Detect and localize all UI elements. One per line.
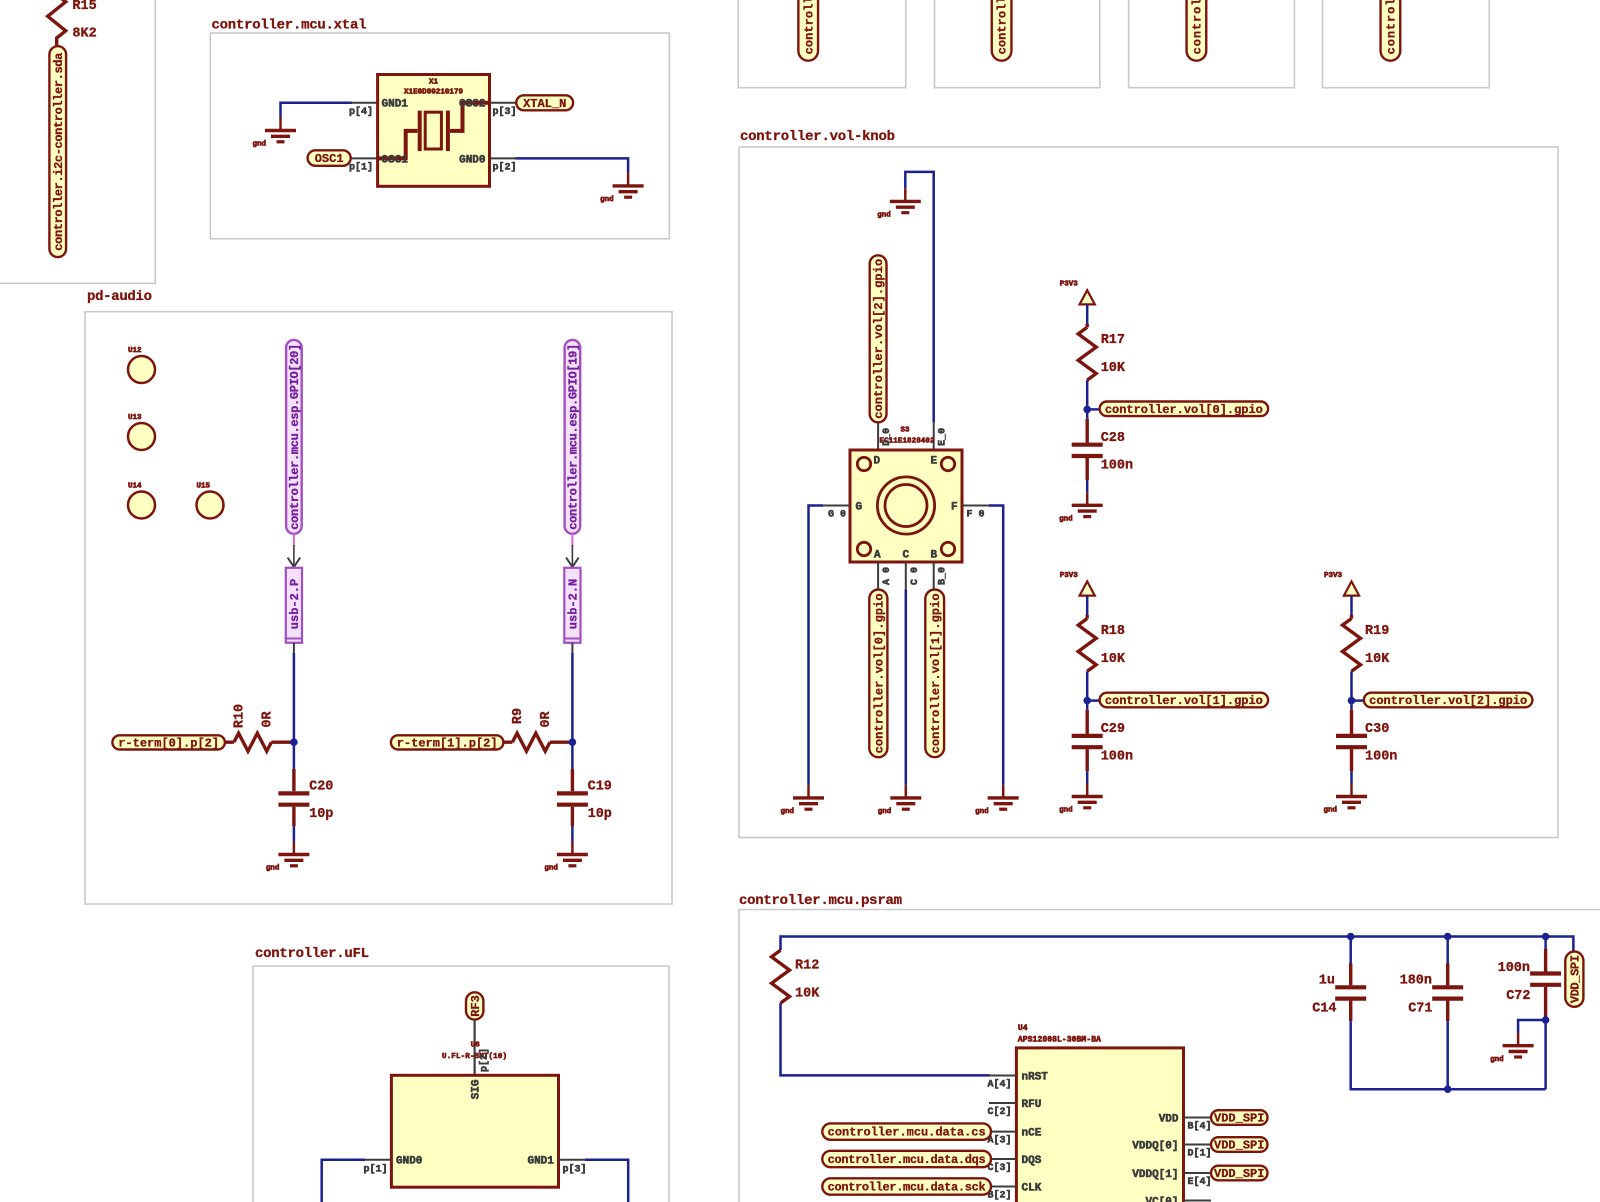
pin stub B xyxy=(933,562,935,590)
module box controller.mcu.psram xyxy=(739,910,1600,1202)
svg-text:RFU: RFU xyxy=(1022,1099,1042,1111)
net pill controller.mcu.data.sck xyxy=(822,1178,991,1194)
junction xyxy=(569,738,577,746)
pin stub C xyxy=(905,562,907,590)
net pill VDD_SPI (vertical) xyxy=(1565,952,1583,1007)
svg-text:gnd: gnd xyxy=(252,141,266,149)
svg-text:r-term[1].p[2]: r-term[1].p[2] xyxy=(397,736,498,750)
net label OSC1 xyxy=(308,150,351,166)
svg-text:VDDQ[1]: VDDQ[1] xyxy=(1132,1169,1178,1181)
net pill controller.vol[2].gpio (top) xyxy=(870,255,887,422)
svg-text:VDD_SPI: VDD_SPI xyxy=(1214,1112,1264,1126)
svg-text:P3V3: P3V3 xyxy=(1060,281,1079,289)
svg-text:R10: R10 xyxy=(233,704,248,728)
wire G to gnd xyxy=(809,506,824,785)
svg-text:VDD: VDD xyxy=(1159,1114,1179,1126)
junction (C72 top) xyxy=(1542,933,1550,941)
wire cap to gnd xyxy=(571,826,574,842)
svg-text:D_0: D_0 xyxy=(882,428,893,446)
net label (clipped) controller.power.vcc xyxy=(798,0,818,61)
testpoint U14 xyxy=(128,483,155,519)
capacitor C28 xyxy=(1072,419,1133,480)
wire resistor to cap xyxy=(1086,380,1089,419)
svg-text:CLK: CLK xyxy=(1022,1183,1042,1195)
svg-text:C[2]: C[2] xyxy=(987,1106,1011,1118)
svg-text:10p: 10p xyxy=(309,807,333,822)
connector arrow xyxy=(566,545,579,567)
net label controller.i2c-controller.sda xyxy=(49,46,66,257)
svg-text:gnd: gnd xyxy=(544,865,558,873)
capacitor C29 xyxy=(1072,710,1133,771)
svg-text:U4: U4 xyxy=(1018,1024,1028,1033)
svg-text:100n: 100n xyxy=(1498,961,1530,976)
svg-text:B: B xyxy=(931,550,938,562)
pin stub E[4] VDDQ[1] xyxy=(1184,1172,1212,1174)
uFL U6 body xyxy=(391,1075,558,1187)
svg-text:R17: R17 xyxy=(1101,333,1125,348)
pin stub B[4] VDD xyxy=(1184,1117,1212,1119)
ground (C) xyxy=(878,785,922,816)
ground (xtal left) xyxy=(252,118,296,149)
svg-text:gnd: gnd xyxy=(1059,807,1073,815)
pin stub G xyxy=(822,505,850,507)
svg-text:10K: 10K xyxy=(1101,652,1126,667)
module box (clipped, top 3) xyxy=(1129,0,1295,88)
svg-text:0R: 0R xyxy=(539,711,554,728)
wire C14 top lead xyxy=(1349,937,1352,965)
svg-text:p[3]: p[3] xyxy=(563,1164,587,1176)
svg-text:C 0: C 0 xyxy=(910,567,921,585)
svg-text:controller.vol[1].gpio: controller.vol[1].gpio xyxy=(929,593,943,753)
svg-text:gnd: gnd xyxy=(266,865,280,873)
wire resistor to cap xyxy=(1350,671,1353,710)
resistor R15 xyxy=(48,0,97,46)
svg-text:A[3]: A[3] xyxy=(987,1135,1011,1147)
svg-text:C29: C29 xyxy=(1101,722,1125,737)
svg-text:E: E xyxy=(931,456,938,468)
wire junction to net pill xyxy=(1087,408,1099,411)
testpoint U13 xyxy=(128,414,155,450)
pin wire RF3 to SIG xyxy=(474,1020,476,1076)
wire GND0 down xyxy=(322,1160,365,1202)
pin stub p[2] GND0 xyxy=(490,157,517,159)
svg-text:p[4]: p[4] xyxy=(349,106,373,118)
junction xyxy=(1083,406,1091,414)
svg-text:RF3: RF3 xyxy=(469,995,483,1017)
wire C72 top lead xyxy=(1544,937,1547,952)
svg-text:D[1]: D[1] xyxy=(1188,1148,1212,1160)
svg-text:usb-2.P: usb-2.P xyxy=(288,579,302,629)
connector link xyxy=(571,534,573,547)
resistor R19 xyxy=(1343,615,1391,671)
svg-text:VDDQ[0]: VDDQ[0] xyxy=(1132,1141,1178,1153)
module box controller.mcu.xtal xyxy=(210,33,669,239)
svg-text:controller.i2c-controller.sda: controller.i2c-controller.sda xyxy=(52,53,66,251)
net pill VDD_SPI xyxy=(1211,1166,1268,1181)
svg-text:10p: 10p xyxy=(588,807,612,822)
svg-text:B_0: B_0 xyxy=(938,567,949,585)
net pill controller.vol[1].gpio (B) xyxy=(925,590,944,758)
svg-text:100n: 100n xyxy=(1101,459,1133,474)
ground (F) xyxy=(975,785,1019,816)
ground xyxy=(544,842,588,873)
rotary encoder S3 labels xyxy=(880,427,935,446)
capacitor C19 xyxy=(557,769,612,826)
svg-text:nRST: nRST xyxy=(1022,1072,1049,1084)
ground (psram) xyxy=(1490,1033,1534,1064)
svg-text:controller.mcu.data.cs: controller.mcu.data.cs xyxy=(828,1126,986,1140)
junction (C14 top) xyxy=(1347,933,1355,941)
pin stub E xyxy=(933,422,935,450)
svg-text:p[2]: p[2] xyxy=(493,162,517,174)
module box (clipped, top 1) xyxy=(738,0,906,88)
wire usb to junction xyxy=(293,653,296,769)
pin stub p[1] OSC1 xyxy=(351,157,378,159)
net pill RF3 xyxy=(466,992,483,1019)
svg-text:controller.mcu.xtal: controller.mcu.xtal xyxy=(212,18,367,34)
net pill controller.mcu.data.cs xyxy=(822,1123,991,1139)
resistor R12 xyxy=(772,950,821,1003)
svg-text:C20: C20 xyxy=(309,780,333,795)
svg-text:GND1: GND1 xyxy=(527,1156,554,1168)
svg-text:controller.uFL: controller.uFL xyxy=(255,946,369,962)
svg-text:XTAL_N: XTAL_N xyxy=(523,97,566,111)
svg-text:C19: C19 xyxy=(588,780,612,795)
svg-text:U14: U14 xyxy=(128,483,142,491)
wire P3V3 to resistor xyxy=(1086,596,1089,616)
svg-text:controller.mcu.data.dqs: controller.mcu.data.dqs xyxy=(828,1153,986,1167)
net label r-term[1].p[2] xyxy=(391,735,504,750)
module box pd-audio xyxy=(85,312,672,904)
connector arrow xyxy=(288,545,301,567)
signal pill controller.mcu.esp.GPIO[20] xyxy=(286,340,302,534)
pin stub C[3] DQS xyxy=(989,1158,1016,1160)
svg-text:U12: U12 xyxy=(128,347,142,355)
svg-text:U13: U13 xyxy=(128,414,142,422)
svg-text:OSC1: OSC1 xyxy=(382,154,409,166)
svg-text:controller.mcu.esp.GPIO[20]: controller.mcu.esp.GPIO[20] xyxy=(288,344,302,530)
svg-text:pd-audio: pd-audio xyxy=(87,289,152,305)
ground (G) xyxy=(780,785,824,816)
ground xyxy=(1323,784,1367,815)
junction xyxy=(1083,697,1091,705)
wire C to gnd xyxy=(905,590,908,785)
junction (bottom rail) xyxy=(1444,1085,1452,1093)
signal box usb-2.P xyxy=(286,568,302,643)
capacitor C30 xyxy=(1336,710,1397,771)
wire junction to net pill xyxy=(1087,699,1099,702)
svg-text:10K: 10K xyxy=(795,987,820,1002)
svg-text:8K2: 8K2 xyxy=(72,27,96,42)
svg-text:p[3]: p[3] xyxy=(493,106,517,118)
svg-text:SIG: SIG xyxy=(471,1079,483,1099)
wire cap to gnd xyxy=(1350,771,1353,783)
net pill VDD_SPI xyxy=(1211,1110,1268,1125)
pin stub p[4] GND1 xyxy=(350,102,378,104)
svg-text:gnd: gnd xyxy=(1059,516,1073,524)
wire R12 to nRST xyxy=(781,1003,991,1075)
svg-text:10K: 10K xyxy=(1101,361,1126,376)
svg-text:VC[0]: VC[0] xyxy=(1145,1197,1178,1202)
svg-text:r-term[0].p[2]: r-term[0].p[2] xyxy=(118,736,219,750)
svg-text:100n: 100n xyxy=(1101,750,1133,765)
svg-text:R15: R15 xyxy=(72,0,96,14)
pin stub A[4] nRST xyxy=(989,1075,1016,1077)
wire C71 top lead xyxy=(1446,937,1449,965)
signal box usb-2.N xyxy=(564,568,580,643)
uFL U6 labels xyxy=(442,1042,507,1062)
svg-text:controller.vol[2].gpio: controller.vol[2].gpio xyxy=(1369,694,1527,708)
capacitor C72 xyxy=(1498,949,1562,1020)
pin stub C[2] RFU xyxy=(989,1102,1016,1104)
svg-text:X1EGD8G21G179: X1EGD8G21G179 xyxy=(404,89,463,97)
svg-text:controller.vol[1].gpio: controller.vol[1].gpio xyxy=(1105,694,1263,708)
wire P3V3 to resistor xyxy=(1086,304,1089,324)
net pill VDD_SPI xyxy=(1211,1137,1268,1152)
wire cap to gnd xyxy=(1086,771,1089,783)
pin stub D[1] VDDQ[0] xyxy=(1184,1144,1212,1146)
svg-text:controller.power.vcc: controller.power.vcc xyxy=(802,0,816,54)
svg-text:OSC1: OSC1 xyxy=(315,152,344,166)
svg-text:C72: C72 xyxy=(1506,989,1530,1004)
capacitor C14 xyxy=(1312,963,1366,1021)
svg-text:OSC2: OSC2 xyxy=(459,99,485,111)
svg-text:R9: R9 xyxy=(511,708,526,724)
svg-text:C[3]: C[3] xyxy=(987,1162,1011,1174)
module box controller.uFL xyxy=(253,966,669,1202)
svg-text:controller.usb2.dp: controller.usb2.dp xyxy=(1191,0,1205,54)
module box (clipped, top 2) xyxy=(935,0,1100,88)
svg-text:B[4]: B[4] xyxy=(1188,1121,1212,1133)
svg-text:gnd: gnd xyxy=(1490,1056,1504,1064)
svg-text:A[4]: A[4] xyxy=(987,1079,1011,1091)
signal pill controller.mcu.esp.GPIO[19] xyxy=(565,340,581,534)
svg-text:gnd: gnd xyxy=(877,212,891,220)
wire GND1 down xyxy=(585,1160,628,1202)
junction xyxy=(290,738,298,746)
svg-text:0R: 0R xyxy=(260,711,275,728)
svg-text:VDD_SPI: VDD_SPI xyxy=(1214,1139,1264,1153)
svg-text:controller.vol[2].gpio: controller.vol[2].gpio xyxy=(872,259,886,419)
net label XTAL_N xyxy=(516,95,573,111)
resistor R17 xyxy=(1078,324,1126,380)
power flag P3V3 xyxy=(1060,281,1095,305)
svg-text:100n: 100n xyxy=(1365,750,1397,765)
svg-text:1u: 1u xyxy=(1319,974,1335,989)
svg-text:C28: C28 xyxy=(1101,431,1125,446)
svg-text:controller.power.gnd: controller.power.gnd xyxy=(996,0,1010,54)
svg-text:gnd: gnd xyxy=(975,808,989,816)
svg-text:GND0: GND0 xyxy=(459,154,485,166)
net pill controller.vol[0].gpio (A) xyxy=(869,590,887,758)
svg-text:APS12808L-30BM-BA: APS12808L-30BM-BA xyxy=(1018,1036,1101,1045)
svg-text:10K: 10K xyxy=(1365,652,1390,667)
wire junction to net pill xyxy=(1352,699,1364,702)
net label (clipped) controller.power.gnd xyxy=(992,0,1012,61)
wire VDD rail (top) xyxy=(781,937,1574,952)
svg-text:E[4]: E[4] xyxy=(1188,1176,1212,1188)
svg-text:controller.mcu.psram: controller.mcu.psram xyxy=(739,893,902,909)
svg-text:controller.usb2.dm: controller.usb2.dm xyxy=(1385,0,1399,54)
pin stub F xyxy=(962,505,990,507)
svg-text:D: D xyxy=(874,456,881,468)
psram IC U4 labels xyxy=(1018,1024,1101,1045)
svg-text:gnd: gnd xyxy=(600,196,614,204)
svg-text:R18: R18 xyxy=(1101,624,1125,639)
svg-text:U.FL-R-SMT(10): U.FL-R-SMT(10) xyxy=(442,1053,507,1061)
svg-text:VDD_SPI: VDD_SPI xyxy=(1568,955,1582,1003)
wire cap to gnd xyxy=(1086,480,1089,492)
capacitor C71 xyxy=(1400,963,1464,1021)
pin stub VC[0] (clipped) xyxy=(1184,1200,1212,1202)
resistor R9 xyxy=(503,708,570,751)
wire P3V3 to resistor xyxy=(1350,596,1353,616)
wire C71 to bottom rail xyxy=(1446,1021,1449,1089)
wire cap to gnd xyxy=(293,826,296,842)
crystal X1 body xyxy=(378,75,490,187)
wire GND1 to gnd xyxy=(281,103,353,118)
svg-text:gnd: gnd xyxy=(878,808,892,816)
svg-text:P3V3: P3V3 xyxy=(1324,572,1343,580)
svg-text:B[2]: B[2] xyxy=(987,1190,1011,1202)
wire usb to junction xyxy=(571,653,574,769)
svg-text:A: A xyxy=(874,550,881,562)
svg-text:F: F xyxy=(951,502,958,514)
svg-text:GND0: GND0 xyxy=(396,1156,422,1168)
wire resistor to cap xyxy=(1086,671,1089,710)
svg-text:controller.mcu.esp.GPIO[19]: controller.mcu.esp.GPIO[19] xyxy=(567,344,581,530)
pin stub p[3] xyxy=(559,1159,587,1161)
svg-text:VDD_SPI: VDD_SPI xyxy=(1214,1167,1264,1181)
svg-text:X1: X1 xyxy=(429,79,439,87)
net pill controller.mcu.data.dqs xyxy=(822,1151,991,1167)
svg-text:p[1]: p[1] xyxy=(363,1164,387,1176)
svg-text:usb-2.N: usb-2.N xyxy=(567,579,581,629)
svg-text:E_0: E_0 xyxy=(938,428,949,446)
pin stub A[3] nCE xyxy=(989,1131,1016,1133)
wire E pin to top gnd xyxy=(905,172,933,422)
net pill controller.vol[1].gpio xyxy=(1100,693,1269,708)
pin stub p[3] OSC2 xyxy=(490,102,517,104)
power flag P3V3 xyxy=(1324,572,1359,596)
svg-text:R19: R19 xyxy=(1365,624,1389,639)
svg-text:gnd: gnd xyxy=(1323,807,1337,815)
module box (clipped, top 4) xyxy=(1323,0,1490,88)
module box controller.vol-knob xyxy=(739,147,1558,838)
svg-text:controller.vol[0].gpio: controller.vol[0].gpio xyxy=(1105,403,1263,417)
wire C72 to bottom rail xyxy=(1544,1020,1547,1089)
svg-text:180n: 180n xyxy=(1400,974,1432,989)
psram IC U4 body xyxy=(1016,1048,1183,1202)
svg-text:G 0: G 0 xyxy=(828,510,846,521)
svg-text:controller.mcu.data.sck: controller.mcu.data.sck xyxy=(828,1181,986,1195)
rotary encoder S3 body xyxy=(850,450,962,562)
ground (xtal right) xyxy=(600,173,644,204)
svg-text:controller.vol[0].gpio: controller.vol[0].gpio xyxy=(872,593,886,753)
svg-text:G: G xyxy=(856,502,863,514)
wire F to gnd xyxy=(989,506,1003,785)
pin stub p[1] xyxy=(364,1159,391,1161)
svg-text:A 0: A 0 xyxy=(882,567,893,585)
ground xyxy=(1059,492,1103,523)
net pill controller.vol[2].gpio xyxy=(1364,693,1533,708)
pin stub A xyxy=(877,562,879,590)
svg-text:controller.vol-knob: controller.vol-knob xyxy=(740,129,895,145)
pin stub B[2] CLK xyxy=(989,1186,1016,1188)
connector link xyxy=(293,534,295,547)
capacitor C20 xyxy=(278,769,333,826)
net label (clipped) controller.usb2.dm xyxy=(1381,0,1401,61)
junction (C71 top) xyxy=(1444,933,1452,941)
ground xyxy=(1059,784,1103,815)
module box (i2c, partially visible) xyxy=(0,0,155,283)
testpoint U12 xyxy=(128,347,155,383)
svg-text:gnd: gnd xyxy=(780,808,794,816)
junction (C72 bottom) xyxy=(1542,1016,1550,1024)
svg-text:GND1: GND1 xyxy=(382,99,409,111)
net label r-term[0].p[2] xyxy=(112,735,224,750)
net pill controller.vol[0].gpio xyxy=(1100,402,1269,417)
svg-text:C: C xyxy=(903,550,910,562)
svg-text:P3V3: P3V3 xyxy=(1060,572,1079,580)
wire C14 to bottom rail xyxy=(1351,1021,1546,1089)
svg-text:R12: R12 xyxy=(795,959,819,974)
svg-text:p[2]: p[2] xyxy=(479,1048,491,1072)
svg-text:S3: S3 xyxy=(900,427,910,435)
pin stub below usb box xyxy=(293,643,295,653)
crystal symbol xyxy=(378,103,490,159)
net label (clipped) controller.usb2.dp xyxy=(1187,0,1207,61)
svg-text:U15: U15 xyxy=(197,483,211,491)
power flag P3V3 xyxy=(1060,572,1095,596)
svg-text:p[1]: p[1] xyxy=(349,162,373,174)
wire C72 junction to gnd xyxy=(1518,1020,1546,1033)
svg-text:C71: C71 xyxy=(1408,1002,1432,1017)
wire GND0 to gnd xyxy=(515,158,628,173)
svg-text:C30: C30 xyxy=(1365,722,1389,737)
testpoint U15 xyxy=(197,483,224,519)
resistor R18 xyxy=(1078,615,1126,671)
resistor R10 xyxy=(225,704,292,751)
svg-text:C14: C14 xyxy=(1312,1002,1336,1017)
svg-text:F 0: F 0 xyxy=(967,510,985,521)
junction xyxy=(1348,697,1356,705)
svg-text:nCE: nCE xyxy=(1022,1128,1042,1140)
ground xyxy=(266,842,310,873)
svg-text:DQS: DQS xyxy=(1022,1155,1042,1167)
pin stub D xyxy=(877,422,879,450)
pin stub below usb box xyxy=(571,643,573,653)
ground (top) xyxy=(877,188,921,219)
